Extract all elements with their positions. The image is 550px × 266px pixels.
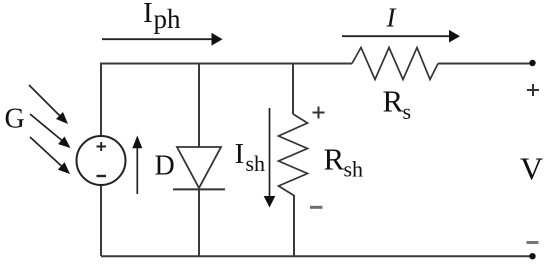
label D <box>155 150 175 181</box>
wire left vertical below source <box>100 185 102 256</box>
irradiance arrow 1 <box>29 85 68 124</box>
current source Iph (circle symbol) <box>77 136 126 185</box>
wire diode branch lower <box>198 189 200 256</box>
svg-text:R: R <box>383 83 404 118</box>
wire diode branch upper <box>198 63 200 147</box>
svg-text:D: D <box>155 150 175 181</box>
label Ish <box>235 138 266 176</box>
node terminal + (top right) <box>529 60 535 66</box>
label G (irradiance) <box>5 103 25 134</box>
arrow up (source current direction) <box>132 136 142 195</box>
label Iph with arrow <box>143 0 181 34</box>
polarity - at output <box>527 241 539 244</box>
resistor Rs (horizontal zigzag) <box>352 48 438 80</box>
label V (output voltage) <box>520 151 543 187</box>
arrow Ish (shunt current direction) <box>264 108 276 208</box>
irradiance arrow 2 <box>30 114 71 148</box>
svg-text:ph: ph <box>154 4 182 34</box>
wire Rsh branch upper <box>292 63 294 114</box>
label I (output current) <box>386 3 398 33</box>
node terminal - (bottom right) <box>529 253 535 259</box>
svg-text:s: s <box>403 99 412 124</box>
svg-text:R: R <box>324 142 345 177</box>
svg-text:I: I <box>235 138 245 170</box>
resistor Rsh (vertical zigzag) <box>279 114 308 196</box>
diode D <box>173 147 225 189</box>
wire top bus <box>101 63 532 65</box>
polarity + at Rsh top <box>313 107 325 119</box>
svg-text:sh: sh <box>344 156 364 181</box>
svg-text:G: G <box>5 103 25 134</box>
wire Rsh branch lower <box>293 195 295 256</box>
svg-text:I: I <box>143 0 153 29</box>
wire bottom bus <box>101 255 532 257</box>
polarity + at output <box>527 84 539 96</box>
svg-text:I: I <box>386 3 398 33</box>
irradiance arrow 3 <box>30 137 70 174</box>
polarity - at Rsh bottom <box>310 206 323 209</box>
label Rs <box>383 83 412 124</box>
svg-text:sh: sh <box>246 151 266 176</box>
wire left vertical above source <box>100 63 102 136</box>
label Rsh <box>324 142 364 182</box>
svg-text:V: V <box>520 151 543 187</box>
arrow Iph (photocurrent direction) <box>102 33 223 46</box>
arrow I (output current direction) <box>342 30 460 43</box>
